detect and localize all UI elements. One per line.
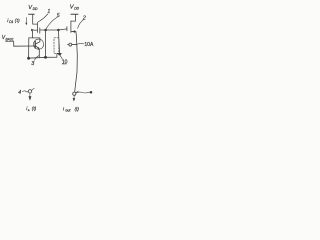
supply VDD right label [70, 5, 80, 11]
output terminal 4 circle [28, 90, 31, 93]
svg-text:D1: D1 [9, 20, 13, 24]
output arrow left head [29, 96, 32, 101]
label 10 pointer [60, 56, 62, 60]
Q3 emitter arrowhead [38, 47, 40, 49]
svg-text:(t): (t) [15, 18, 20, 23]
transistor M1 (MOSFET 1) [31, 23, 40, 33]
wire node B down to element 10 [58, 30, 59, 54]
svg-text:10A: 10A [84, 42, 94, 48]
M1 drain stub [33, 23, 38, 25]
supply VDD right terminal bar [71, 13, 78, 15]
junction node A dot [44, 29, 47, 32]
wire node A down to bottom rail [45, 30, 47, 57]
svg-text:DD: DD [74, 6, 79, 10]
label 3 pointer [34, 56, 38, 61]
svg-text:(t): (t) [75, 106, 80, 111]
Q3 circle [34, 39, 44, 49]
M1 channel line [36, 23, 38, 32]
bottom rail wire [29, 54, 62, 59]
transistor M2 (MOSFET 2) [67, 21, 76, 33]
label 4 leader [22, 91, 28, 92]
bias VBAS1 underline [5, 40, 13, 42]
wire VDD right to M2 drain [74, 15, 76, 22]
svg-text:DD: DD [33, 7, 38, 11]
element 10 dashed box [54, 38, 59, 54]
wire M1 source down [32, 31, 34, 38]
output arrow right head [73, 98, 76, 101]
gate bus wire M1 to M2 [40, 29, 67, 30]
M1 gate plate [39, 28, 41, 33]
Q3 emitter diagonal [35, 46, 38, 49]
svg-text:10: 10 [62, 59, 68, 65]
wire VBAS1 down [13, 42, 15, 47]
output arrow left shaft [29, 93, 31, 96]
terminal 4 tick [32, 88, 35, 90]
supply VDD left label [28, 5, 38, 11]
Q3 base bar [34, 41, 36, 48]
rail junction dot right [58, 53, 61, 56]
M2 channel line [70, 21, 72, 33]
terminal right squiggle to dot [76, 91, 90, 94]
current arrow iD1 [25, 17, 27, 25]
label ia(t) [26, 106, 36, 112]
M1 source arrow [31, 29, 34, 32]
wire base lead Q3 [14, 45, 36, 47]
terminal right tick [76, 91, 79, 93]
rail junction dot mid [44, 56, 47, 59]
bias VBAS1 label [2, 35, 14, 42]
M2 source arrow [72, 30, 75, 33]
label 10A leader [77, 42, 84, 45]
label 5 pointer [46, 17, 57, 29]
rail junction dot left [27, 57, 30, 60]
label 2 pointer [78, 20, 84, 28]
Q3 emitter lead to rail [38, 49, 40, 57]
M2 source stub [71, 31, 76, 33]
node dot right [90, 91, 93, 94]
label iout(t) [63, 106, 80, 112]
svg-text:a: a [28, 108, 30, 112]
wire node C down-left to rail (crosses base lead) [28, 38, 30, 58]
svg-text:3: 3 [31, 61, 34, 67]
svg-text:(t): (t) [32, 106, 37, 111]
junction node B dot [57, 29, 60, 32]
svg-text:out: out [65, 108, 71, 112]
wire node C horizontal [29, 37, 40, 39]
label iD1(t) [7, 18, 20, 24]
M1 source stub [32, 29, 38, 31]
terminal 10A stubs [68, 43, 77, 45]
output arrow right shaft [73, 96, 75, 99]
label 10 underline [62, 63, 66, 65]
label 1 pointer [37, 14, 48, 22]
M2 gate plate [66, 27, 68, 31]
output terminal right circle [73, 92, 76, 95]
M2 drain stub [71, 20, 76, 22]
svg-text:5: 5 [57, 13, 60, 19]
supply VDD left terminal bar [29, 13, 35, 15]
transistor Q3 (npn) [34, 38, 44, 57]
Q3 collector lead [35, 38, 40, 44]
svg-text:4: 4 [18, 90, 21, 96]
wire M2 source down right side [75, 32, 78, 92]
terminal 10A circle [69, 43, 72, 46]
wire VDD left to M1 drain [32, 14, 34, 24]
